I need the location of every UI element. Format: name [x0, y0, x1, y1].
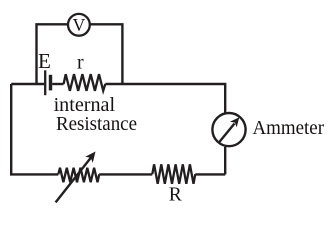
rheostat arrow: [56, 152, 96, 203]
wire bottom rail right segment: [195, 173, 225, 175]
wire top row right segment, down right side to ammeter: [105, 84, 225, 113]
resistor r zigzag: [64, 74, 106, 91]
battery E: short thick plate: [49, 75, 52, 91]
resistor R zigzag: [152, 164, 195, 184]
wire top row left segment: [11, 83, 44, 85]
wire ammeter to bottom rail: [224, 147, 226, 175]
wire bottom rail middle segment: [99, 173, 152, 175]
svg-text:E: E: [38, 49, 51, 73]
wire voltmeter loop right: from voltmeter to node after r: [90, 24, 123, 84]
wire battery to r: [52, 83, 63, 85]
rheostat (variable resistor) zigzag: [58, 168, 99, 183]
ammeter A: [212, 113, 245, 146]
svg-text:V: V: [73, 15, 86, 35]
svg-text:Ammeter: Ammeter: [253, 117, 325, 139]
voltmeter V: [68, 14, 90, 36]
wire voltmeter loop left: vertical up from battery node, across top: [37, 24, 68, 84]
battery E: long plate: [44, 70, 46, 95]
wire bottom rail left segment and left side up to battery row: [11, 84, 58, 174]
svg-text:Resistance: Resistance: [56, 113, 137, 135]
svg-text:r: r: [77, 52, 84, 74]
svg-text:R: R: [169, 185, 182, 206]
ammeter needle arrow: [219, 117, 240, 143]
